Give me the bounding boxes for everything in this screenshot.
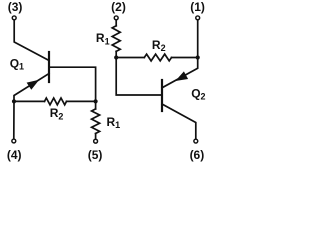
terminal pin (3) [12, 16, 16, 20]
wire R1 to pin 5 [95, 134, 97, 139]
node B junction dot [12, 99, 16, 103]
svg-text:(6): (6) [190, 148, 205, 162]
node A junction dot [94, 99, 98, 103]
svg-text:(5): (5) [88, 148, 103, 162]
resistor R2 (right circuit) [144, 54, 171, 61]
svg-text:(3): (3) [8, 0, 23, 14]
transistor Q1 base bar [48, 52, 50, 82]
terminal pin (4) [12, 139, 16, 143]
wire R2 to node A [67, 100, 96, 102]
resistor R2 left lead wire [14, 100, 45, 102]
wire emitter Q2 to node D [162, 58, 198, 88]
terminal pin (2) [114, 16, 118, 20]
wire base Q1 to node A [49, 67, 96, 101]
wire node A to R1 [95, 101, 97, 109]
svg-text:(4): (4) [7, 148, 22, 162]
wire R2 to node D [172, 57, 198, 59]
node C junction dot [114, 55, 118, 59]
resistor R1 (right circuit) [112, 26, 120, 52]
wire R1 to node C [115, 51, 117, 57]
wire pin 1 to node D [197, 20, 199, 57]
node D junction dot [196, 55, 200, 59]
terminal pin (6) [194, 139, 198, 143]
wire pin 2 to R1 [115, 20, 117, 25]
emitter arrow Q1 [27, 80, 40, 90]
resistor R2 (left circuit) [45, 98, 67, 105]
svg-text:(1): (1) [190, 0, 205, 14]
wire collector Q2 to pin 6 [162, 104, 196, 139]
wire emitter Q1 to node B [14, 74, 49, 102]
resistor R1 (left circuit) [92, 109, 100, 134]
wire node C to R2 [116, 57, 144, 59]
wire collector Q1 to pin 3 [14, 20, 49, 60]
transistor Q2 base bar [161, 80, 163, 111]
terminal pin (1) [196, 16, 200, 20]
svg-text:(2): (2) [111, 0, 126, 14]
emitter arrow Q2 [175, 71, 188, 81]
terminal pin (5) [94, 139, 98, 143]
wire node B to pin 4 [13, 101, 15, 138]
wire base Q2 to node C [116, 58, 162, 96]
